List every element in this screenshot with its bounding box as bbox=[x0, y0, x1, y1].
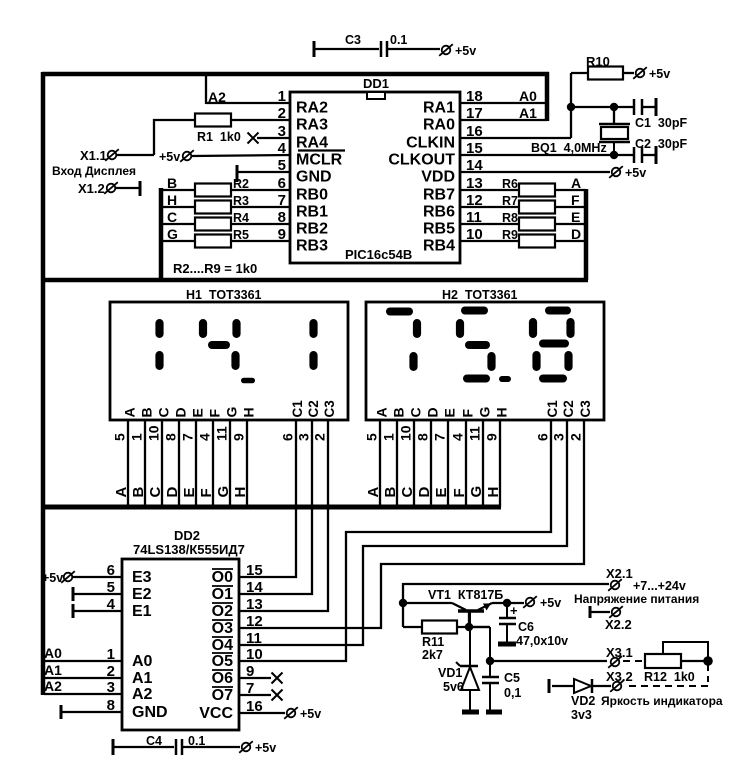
svg-text:F: F bbox=[451, 488, 468, 497]
ground bar VD1 bbox=[462, 710, 479, 715]
svg-text:E: E bbox=[571, 209, 580, 225]
svg-text:X3.2: X3.2 bbox=[606, 669, 633, 684]
svg-text:RA2: RA2 bbox=[296, 100, 328, 117]
svg-text:5: 5 bbox=[112, 433, 128, 441]
junction bbox=[610, 103, 618, 111]
svg-text:C3: C3 bbox=[578, 400, 593, 418]
power +5v out bbox=[526, 598, 535, 607]
svg-text:C2 30pF: C2 30pF bbox=[635, 137, 687, 151]
capacitor C5 bbox=[489, 661, 491, 676]
svg-text:4: 4 bbox=[197, 433, 213, 441]
node X2.1 bbox=[611, 581, 620, 590]
svg-text:RA0: RA0 bbox=[423, 117, 455, 134]
wire E1 bbox=[73, 610, 122, 612]
svg-text:R12 1k0: R12 1k0 bbox=[644, 670, 695, 684]
H1 digit 4 seg B bbox=[232, 319, 240, 338]
svg-text:C5: C5 bbox=[504, 671, 520, 685]
ground bar C1 bbox=[655, 98, 658, 116]
wire C3 right bbox=[387, 48, 440, 50]
svg-text:3: 3 bbox=[296, 433, 312, 441]
svg-text:2: 2 bbox=[312, 433, 328, 441]
svg-text:4: 4 bbox=[450, 433, 466, 441]
svg-text:B: B bbox=[391, 407, 407, 417]
svg-text:+5v: +5v bbox=[540, 596, 561, 610]
wire segment pin E bbox=[447, 420, 449, 507]
svg-text:10: 10 bbox=[246, 646, 263, 663]
junction bbox=[399, 599, 407, 607]
svg-text:R8: R8 bbox=[502, 211, 518, 225]
wire C4 right bbox=[182, 746, 240, 748]
junction base node bbox=[465, 623, 473, 631]
svg-text:9: 9 bbox=[231, 433, 247, 441]
wire R4 to pin8 bbox=[231, 223, 290, 225]
resistor R5 bbox=[195, 235, 231, 248]
wire C1 row bbox=[571, 106, 634, 108]
wire pin16 CLKIN bbox=[460, 137, 571, 139]
svg-text:+: + bbox=[510, 603, 518, 618]
svg-text:VD2: VD2 bbox=[571, 694, 595, 708]
svg-text:B: B bbox=[167, 175, 177, 191]
svg-text:RB1: RB1 bbox=[296, 204, 328, 221]
svg-text:Вход Дисплея: Вход Дисплея bbox=[52, 164, 136, 178]
svg-text:A0: A0 bbox=[519, 88, 537, 104]
svg-text:2: 2 bbox=[568, 433, 584, 441]
wire E2 bbox=[73, 593, 122, 595]
svg-text:C4: C4 bbox=[146, 734, 162, 748]
wire R8 to bus bbox=[555, 223, 586, 225]
wire X1.1 bbox=[116, 154, 154, 156]
H1 digit 4 seg F bbox=[199, 319, 207, 338]
capacitor C2 bbox=[633, 147, 636, 163]
svg-text:H: H bbox=[494, 407, 510, 417]
svg-text:O7: O7 bbox=[212, 687, 233, 704]
svg-text:12: 12 bbox=[246, 613, 263, 630]
resistor R9 bbox=[519, 235, 555, 248]
wire pin2 to R1 bbox=[231, 119, 290, 121]
svg-text:H1 TOT3361: H1 TOT3361 bbox=[186, 288, 262, 302]
wire A1 bbox=[44, 677, 122, 679]
ground bar E1 bbox=[72, 604, 75, 618]
svg-text:VDD: VDD bbox=[421, 169, 455, 186]
resistor R1 bbox=[195, 114, 231, 127]
svg-text:VT1 КТ817Б: VT1 КТ817Б bbox=[428, 588, 503, 602]
svg-text:C1: C1 bbox=[290, 400, 305, 418]
ground bar pin5 bbox=[236, 165, 239, 182]
wire GND bbox=[61, 711, 122, 713]
wire - display bus rail bbox=[42, 505, 501, 510]
wire R1 to X1.1 bbox=[154, 120, 195, 155]
svg-text:A0: A0 bbox=[132, 653, 153, 670]
svg-text:RB3: RB3 bbox=[296, 238, 328, 255]
no-connect X pin7 bbox=[239, 694, 271, 696]
svg-text:X2.2: X2.2 bbox=[605, 617, 632, 632]
wire segment pin B bbox=[396, 420, 398, 507]
svg-text:C2: C2 bbox=[306, 400, 321, 417]
svg-text:2k7: 2k7 bbox=[422, 648, 443, 662]
wire C2 stub bbox=[642, 154, 656, 156]
wire bus to R3 bbox=[161, 206, 195, 208]
wire segment pin C bbox=[161, 420, 163, 507]
svg-text:E: E bbox=[442, 408, 458, 417]
svg-text:14: 14 bbox=[246, 579, 263, 596]
svg-text:E1: E1 bbox=[132, 603, 152, 620]
wire segment pin F bbox=[212, 420, 214, 507]
no-connect X pin3 bbox=[248, 133, 259, 144]
svg-text:10: 10 bbox=[146, 425, 162, 441]
wire - main bus top rail bbox=[42, 72, 549, 77]
svg-text:A2: A2 bbox=[208, 89, 226, 105]
dashed wire to X3.2 bbox=[624, 685, 708, 687]
wire bus to R5 bbox=[161, 240, 195, 242]
svg-text:0.1: 0.1 bbox=[188, 734, 205, 748]
H2 digit 8 seg D bbox=[539, 375, 567, 383]
svg-text:B: B bbox=[130, 487, 147, 498]
svg-text:R9: R9 bbox=[502, 228, 518, 242]
svg-text:X3.1: X3.1 bbox=[606, 645, 633, 660]
wire segment pin H bbox=[246, 420, 248, 507]
wire C4 left bbox=[113, 746, 174, 748]
svg-text:A: A bbox=[113, 487, 130, 498]
resistor R4 bbox=[195, 218, 231, 231]
H2 digit 5 seg C bbox=[487, 352, 495, 371]
wire - inner left bus segment bbox=[159, 188, 164, 280]
svg-text:D: D bbox=[164, 487, 181, 498]
crystal BQ1 link bbox=[613, 107, 615, 124]
svg-text:E2: E2 bbox=[132, 586, 152, 603]
svg-text:D: D bbox=[416, 487, 433, 498]
wire segment pin B bbox=[144, 420, 146, 507]
svg-text:RB5: RB5 bbox=[423, 221, 455, 238]
svg-text:11: 11 bbox=[467, 426, 483, 441]
H1 digit 4 seg C bbox=[231, 351, 239, 370]
svg-text:DD1: DD1 bbox=[363, 76, 389, 91]
wire - main bus left rail bbox=[41, 72, 46, 695]
svg-text:H: H bbox=[485, 487, 502, 498]
svg-text:BQ1 4,0MHz: BQ1 4,0MHz bbox=[531, 141, 607, 155]
svg-text:11: 11 bbox=[214, 426, 230, 441]
svg-text:RB4: RB4 bbox=[423, 238, 455, 255]
resistor R7 bbox=[519, 201, 555, 214]
H2 digit 5 seg F bbox=[456, 319, 464, 338]
wire +24v input bbox=[403, 583, 609, 585]
wire pin17 A1 bbox=[460, 119, 547, 121]
svg-text:+7...+24v: +7...+24v bbox=[633, 579, 686, 593]
wire R2 to pin6 bbox=[231, 189, 290, 191]
svg-text:A2: A2 bbox=[132, 686, 153, 703]
H2 digit 5 seg G bbox=[465, 341, 490, 349]
wire R7 to bus bbox=[555, 206, 586, 208]
svg-text:A0: A0 bbox=[44, 645, 62, 661]
svg-text:A2: A2 bbox=[44, 678, 62, 694]
svg-text:+5v: +5v bbox=[625, 166, 646, 180]
wire H2 C1 to O5 bbox=[239, 420, 551, 661]
wire emitter bbox=[492, 602, 524, 604]
wire C1 stub bbox=[642, 106, 656, 108]
wire R10 left bbox=[571, 72, 588, 74]
wire input drop bbox=[402, 583, 404, 603]
wire R5 to pin9 bbox=[231, 240, 290, 242]
svg-text:15: 15 bbox=[246, 562, 263, 579]
svg-text:O5: O5 bbox=[212, 653, 233, 670]
svg-text:6: 6 bbox=[535, 433, 551, 441]
svg-text:A: A bbox=[122, 407, 138, 417]
svg-text:0,1: 0,1 bbox=[504, 686, 521, 700]
svg-text:CLKIN: CLKIN bbox=[406, 135, 455, 152]
H2 digit 8 seg C bbox=[564, 351, 572, 371]
svg-text:E: E bbox=[190, 408, 206, 417]
svg-text:O2: O2 bbox=[212, 603, 233, 620]
H2 digit 5 seg A bbox=[461, 307, 488, 315]
svg-text:O6: O6 bbox=[212, 670, 233, 687]
svg-text:E3: E3 bbox=[132, 569, 152, 586]
svg-text:1: 1 bbox=[129, 433, 145, 441]
wire X2.2 bbox=[590, 611, 610, 613]
svg-text:MCLR: MCLR bbox=[296, 152, 343, 169]
display H1&#160;&#160;TOT3361 body bbox=[110, 302, 348, 420]
svg-text:C: C bbox=[399, 487, 416, 498]
wire A2 net drop bbox=[205, 72, 207, 104]
svg-text:R2....R9 = 1k0: R2....R9 = 1k0 bbox=[173, 261, 257, 276]
svg-text:7: 7 bbox=[180, 433, 196, 441]
junction bbox=[610, 151, 618, 159]
ground bar C3 bbox=[313, 41, 316, 57]
wire H1 C1 to O0 bbox=[239, 420, 296, 577]
resistor R10 bbox=[588, 67, 623, 80]
wire VD2 left bbox=[552, 685, 574, 687]
wire collector bbox=[403, 602, 452, 604]
ground bar C6 bbox=[498, 642, 516, 647]
svg-text:5: 5 bbox=[364, 433, 380, 441]
svg-text:G: G bbox=[224, 407, 240, 418]
svg-text:R1 1k0: R1 1k0 bbox=[197, 130, 241, 144]
svg-text:3v3: 3v3 bbox=[571, 708, 592, 722]
svg-text:C: C bbox=[147, 487, 164, 498]
svg-text:C: C bbox=[156, 407, 172, 417]
svg-text:H2 TOT3361: H2 TOT3361 bbox=[442, 288, 518, 302]
wire pin15 CLKOUT bbox=[460, 154, 634, 156]
junction bbox=[567, 103, 575, 111]
svg-text:X1.2: X1.2 bbox=[78, 181, 105, 196]
wire pin12 to R7 bbox=[460, 206, 519, 208]
svg-text:RA4: RA4 bbox=[296, 135, 328, 152]
svg-text:A: A bbox=[374, 407, 390, 417]
svg-text:G: G bbox=[477, 407, 493, 418]
wire segment pin C bbox=[413, 420, 415, 507]
wire segment pin G bbox=[482, 420, 484, 507]
svg-text:7: 7 bbox=[432, 433, 448, 441]
svg-text:1: 1 bbox=[381, 433, 397, 441]
svg-text:G: G bbox=[215, 486, 232, 498]
wire to X3.1 bbox=[490, 660, 607, 662]
wire R11 left bbox=[403, 626, 422, 628]
H1 digit 4 seg G bbox=[208, 341, 230, 349]
wire X1.2 bbox=[115, 187, 140, 189]
svg-text:10: 10 bbox=[398, 425, 414, 441]
svg-text:G: G bbox=[468, 486, 485, 498]
capacitor C4 bbox=[175, 739, 178, 755]
wire segment pin D bbox=[178, 420, 180, 507]
wire segment pin A bbox=[379, 420, 381, 507]
svg-text:H: H bbox=[232, 487, 249, 498]
svg-text:O0: O0 bbox=[212, 569, 233, 586]
H2 digit 8 seg G bbox=[539, 340, 569, 348]
wire - bus lower rail under DD1 bbox=[42, 278, 588, 283]
svg-text:GND: GND bbox=[132, 704, 168, 721]
svg-text:C6: C6 bbox=[518, 620, 534, 634]
wire R10 to +5v bbox=[623, 72, 634, 74]
svg-text:R11: R11 bbox=[422, 635, 444, 649]
IC DD2 74LS138/K555ID7 bbox=[122, 559, 239, 730]
svg-text:O1: O1 bbox=[212, 586, 233, 603]
wire pin11 to R8 bbox=[460, 223, 519, 225]
svg-text:A1: A1 bbox=[44, 662, 62, 678]
wire - inner right bus segment bbox=[584, 189, 589, 280]
wire VCC bbox=[239, 712, 285, 714]
svg-text:9: 9 bbox=[484, 433, 500, 441]
ground bar C4 bbox=[112, 739, 115, 755]
svg-text:B: B bbox=[382, 487, 399, 498]
svg-text:8: 8 bbox=[163, 433, 179, 441]
H1 decimal point bbox=[241, 378, 255, 384]
svg-text:C3: C3 bbox=[345, 33, 361, 47]
svg-text:X2.1: X2.1 bbox=[606, 566, 633, 581]
wire to C5 node bbox=[469, 626, 490, 628]
wire segment pin D bbox=[430, 420, 432, 507]
H2 digit 5 seg D bbox=[463, 375, 490, 383]
resistor R8 bbox=[519, 218, 555, 231]
svg-text:RA1: RA1 bbox=[423, 100, 455, 117]
H2 digit 8 seg B bbox=[566, 318, 574, 338]
svg-text:+5v: +5v bbox=[455, 44, 476, 58]
node X2.2 bbox=[612, 608, 621, 617]
wire CLKIN riser bbox=[570, 73, 572, 138]
wire R11 right bbox=[457, 626, 490, 628]
svg-text:O4: O4 bbox=[212, 637, 233, 654]
svg-text:R7: R7 bbox=[502, 194, 518, 208]
svg-text:+5v: +5v bbox=[159, 150, 180, 164]
power +5v R10 bbox=[636, 69, 645, 78]
svg-text:GND: GND bbox=[296, 169, 332, 186]
power +5v C4 bbox=[242, 743, 251, 752]
wire C3 left bbox=[314, 48, 379, 50]
wire R3 to pin7 bbox=[231, 206, 290, 208]
svg-text:CLKOUT: CLKOUT bbox=[388, 152, 455, 169]
H2 digit 8 seg A bbox=[545, 307, 571, 315]
wire pin13 to R6 bbox=[460, 189, 519, 191]
wire pin1 RA2 bbox=[206, 102, 290, 104]
IC DD1 PIC16c54B bbox=[290, 92, 460, 263]
ground bar E2 bbox=[72, 587, 75, 601]
svg-text:+5v: +5v bbox=[300, 707, 321, 721]
resistor R11 bbox=[422, 621, 457, 634]
wire R12 right bbox=[681, 660, 705, 662]
svg-text:C3: C3 bbox=[322, 400, 337, 418]
svg-text:H: H bbox=[167, 192, 177, 208]
H1 digit 1 seg B bbox=[155, 319, 163, 338]
H1 digit 1b seg C bbox=[309, 351, 317, 370]
svg-text:RA3: RA3 bbox=[296, 117, 328, 134]
svg-text:PIC16c54B: PIC16c54B bbox=[345, 247, 412, 262]
wire segment pin A bbox=[127, 420, 129, 507]
svg-text:+5v: +5v bbox=[649, 67, 670, 81]
svg-text:+5v: +5v bbox=[255, 741, 276, 755]
wire R6 to bus bbox=[555, 189, 586, 191]
diode VD2 bbox=[574, 679, 591, 693]
wire R11 drop bbox=[402, 603, 404, 627]
svg-text:C1 30pF: C1 30pF bbox=[635, 116, 687, 130]
svg-text:F: F bbox=[460, 409, 476, 418]
wire segment pin E bbox=[195, 420, 197, 507]
wire pin10 to R9 bbox=[460, 240, 519, 242]
MCLR overline bbox=[298, 149, 345, 151]
svg-text:74LS138/К555ИД7: 74LS138/К555ИД7 bbox=[133, 542, 245, 557]
svg-text:RB7: RB7 bbox=[423, 187, 455, 204]
wire A0 bbox=[44, 660, 122, 662]
power +5v VCC bbox=[287, 709, 296, 718]
dashed wire X3.1 to R12 bbox=[623, 660, 645, 662]
svg-text:RB0: RB0 bbox=[296, 187, 328, 204]
svg-text:C: C bbox=[167, 209, 177, 225]
svg-text:D: D bbox=[425, 407, 441, 417]
svg-text:R6: R6 bbox=[502, 177, 518, 191]
wire A2 bbox=[44, 693, 122, 695]
wire bus to R4 bbox=[161, 223, 195, 225]
svg-text:D: D bbox=[173, 407, 189, 417]
wire pin3 stub bbox=[257, 137, 290, 139]
svg-text:0.1: 0.1 bbox=[390, 33, 407, 47]
dashed wire wiper down bbox=[707, 665, 709, 686]
svg-text:11: 11 bbox=[246, 630, 262, 647]
junction bbox=[486, 657, 494, 665]
svg-text:R10: R10 bbox=[586, 54, 610, 69]
H2 digit 8 seg F bbox=[529, 318, 537, 338]
ground bar GND bbox=[60, 705, 63, 719]
wire base bbox=[468, 612, 470, 627]
wire bus to R2 bbox=[161, 189, 195, 191]
svg-text:VCC: VCC bbox=[199, 705, 233, 722]
IC DD1 top notch bbox=[367, 92, 385, 99]
svg-text:RB6: RB6 bbox=[423, 204, 455, 221]
ground bar C5 bbox=[486, 710, 502, 715]
zener VD1 bbox=[469, 627, 471, 666]
wire H1 C3 to O2 bbox=[239, 420, 328, 611]
svg-text:C1: C1 bbox=[545, 400, 560, 418]
junction bbox=[503, 599, 511, 607]
power +5v VDD bbox=[612, 168, 621, 177]
svg-text:G: G bbox=[167, 226, 178, 242]
wire X3.2 to VD2 bbox=[592, 685, 611, 687]
display H2&#160;&#160;TOT3361 body bbox=[366, 302, 604, 420]
svg-text:C2: C2 bbox=[561, 400, 576, 417]
svg-text:A: A bbox=[571, 175, 581, 191]
wire R9 to bus bbox=[555, 240, 586, 242]
H1 digit 1 seg C bbox=[155, 351, 163, 370]
capacitor C3 bbox=[380, 41, 383, 57]
H2 digit 8 seg E bbox=[532, 351, 540, 371]
wire E3 bbox=[72, 576, 122, 578]
svg-text:F: F bbox=[571, 192, 580, 208]
node X3.1 bbox=[611, 658, 620, 667]
ground bar C2 bbox=[655, 146, 658, 164]
ground bar X1.2 bbox=[139, 181, 142, 196]
svg-text:Яркость индикатора: Яркость индикатора bbox=[601, 694, 723, 708]
svg-text:X1.1: X1.1 bbox=[80, 148, 107, 163]
transistor VT1 bbox=[452, 603, 466, 610]
H2 decimal point bbox=[499, 376, 511, 382]
svg-text:H: H bbox=[241, 407, 257, 417]
svg-text:E: E bbox=[181, 487, 198, 497]
power +5v C3 bbox=[442, 46, 451, 55]
